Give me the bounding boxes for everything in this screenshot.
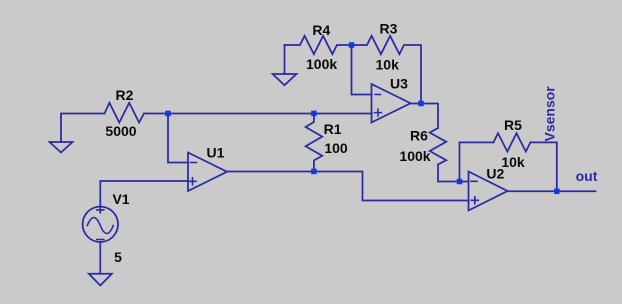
wire U3 output to R6: [411, 104, 439, 129]
wire node B down to U3 minus: [352, 45, 372, 95]
svg-text:R4: R4: [312, 22, 330, 38]
wire U1 output to corner: [227, 172, 469, 201]
svg-text:U1: U1: [207, 145, 225, 161]
svg-text:10k: 10k: [376, 57, 400, 73]
svg-text:V1: V1: [112, 191, 129, 207]
svg-text:R6: R6: [410, 128, 428, 144]
resistor R1: [306, 114, 323, 172]
wire main net from ground to U3 plus input: [61, 114, 105, 143]
resistor R5: [493, 133, 530, 151]
svg-text:10k: 10k: [501, 154, 525, 170]
svg-text:U3: U3: [390, 76, 408, 92]
wire feedback up from U2 minus node: [460, 142, 494, 181]
svg-text:100k: 100k: [399, 148, 430, 164]
wire R6 bottom to U2 minus: [438, 165, 469, 182]
wire R2 right to U3: [144, 113, 372, 115]
svg-text:out: out: [576, 168, 598, 184]
op-amp U3: [372, 84, 411, 123]
svg-text:R1: R1: [324, 121, 342, 137]
svg-text:R5: R5: [504, 117, 522, 133]
svg-text:5000: 5000: [105, 123, 136, 139]
node A junction: [165, 111, 171, 117]
resistor R4: [285, 36, 352, 54]
source V1: [83, 207, 118, 242]
node out junction: [554, 189, 560, 195]
node U3 output junction: [418, 101, 424, 107]
svg-text:5: 5: [114, 249, 122, 265]
wire V1 bottom to ground: [99, 242, 101, 274]
svg-text:R2: R2: [116, 87, 134, 103]
op-amp U1: [188, 153, 227, 192]
resistor R6: [430, 128, 447, 165]
wire V1 to U1 plus: [100, 181, 188, 213]
wire U2 output to out: [508, 190, 596, 192]
wire R5 right down to out node: [530, 142, 556, 191]
wire from node A down to U1 minus: [168, 114, 188, 163]
op-amp U2: [469, 172, 508, 211]
node R1 top junction: [311, 111, 317, 117]
resistor R2: [105, 103, 145, 123]
ground G1 left of R2: [50, 142, 73, 153]
resistor R3: [352, 36, 422, 104]
svg-text:100: 100: [324, 140, 348, 156]
ground G2 below V1: [89, 274, 112, 286]
node R1 bottom junction: [311, 169, 317, 175]
svg-text:100k: 100k: [306, 56, 337, 72]
node U2 minus junction: [457, 179, 463, 185]
svg-text:Vsensor: Vsensor: [542, 86, 558, 142]
svg-text:R3: R3: [380, 21, 398, 37]
ground G3 left of R4: [284, 45, 286, 74]
node R4/R3 junction: [349, 42, 355, 48]
